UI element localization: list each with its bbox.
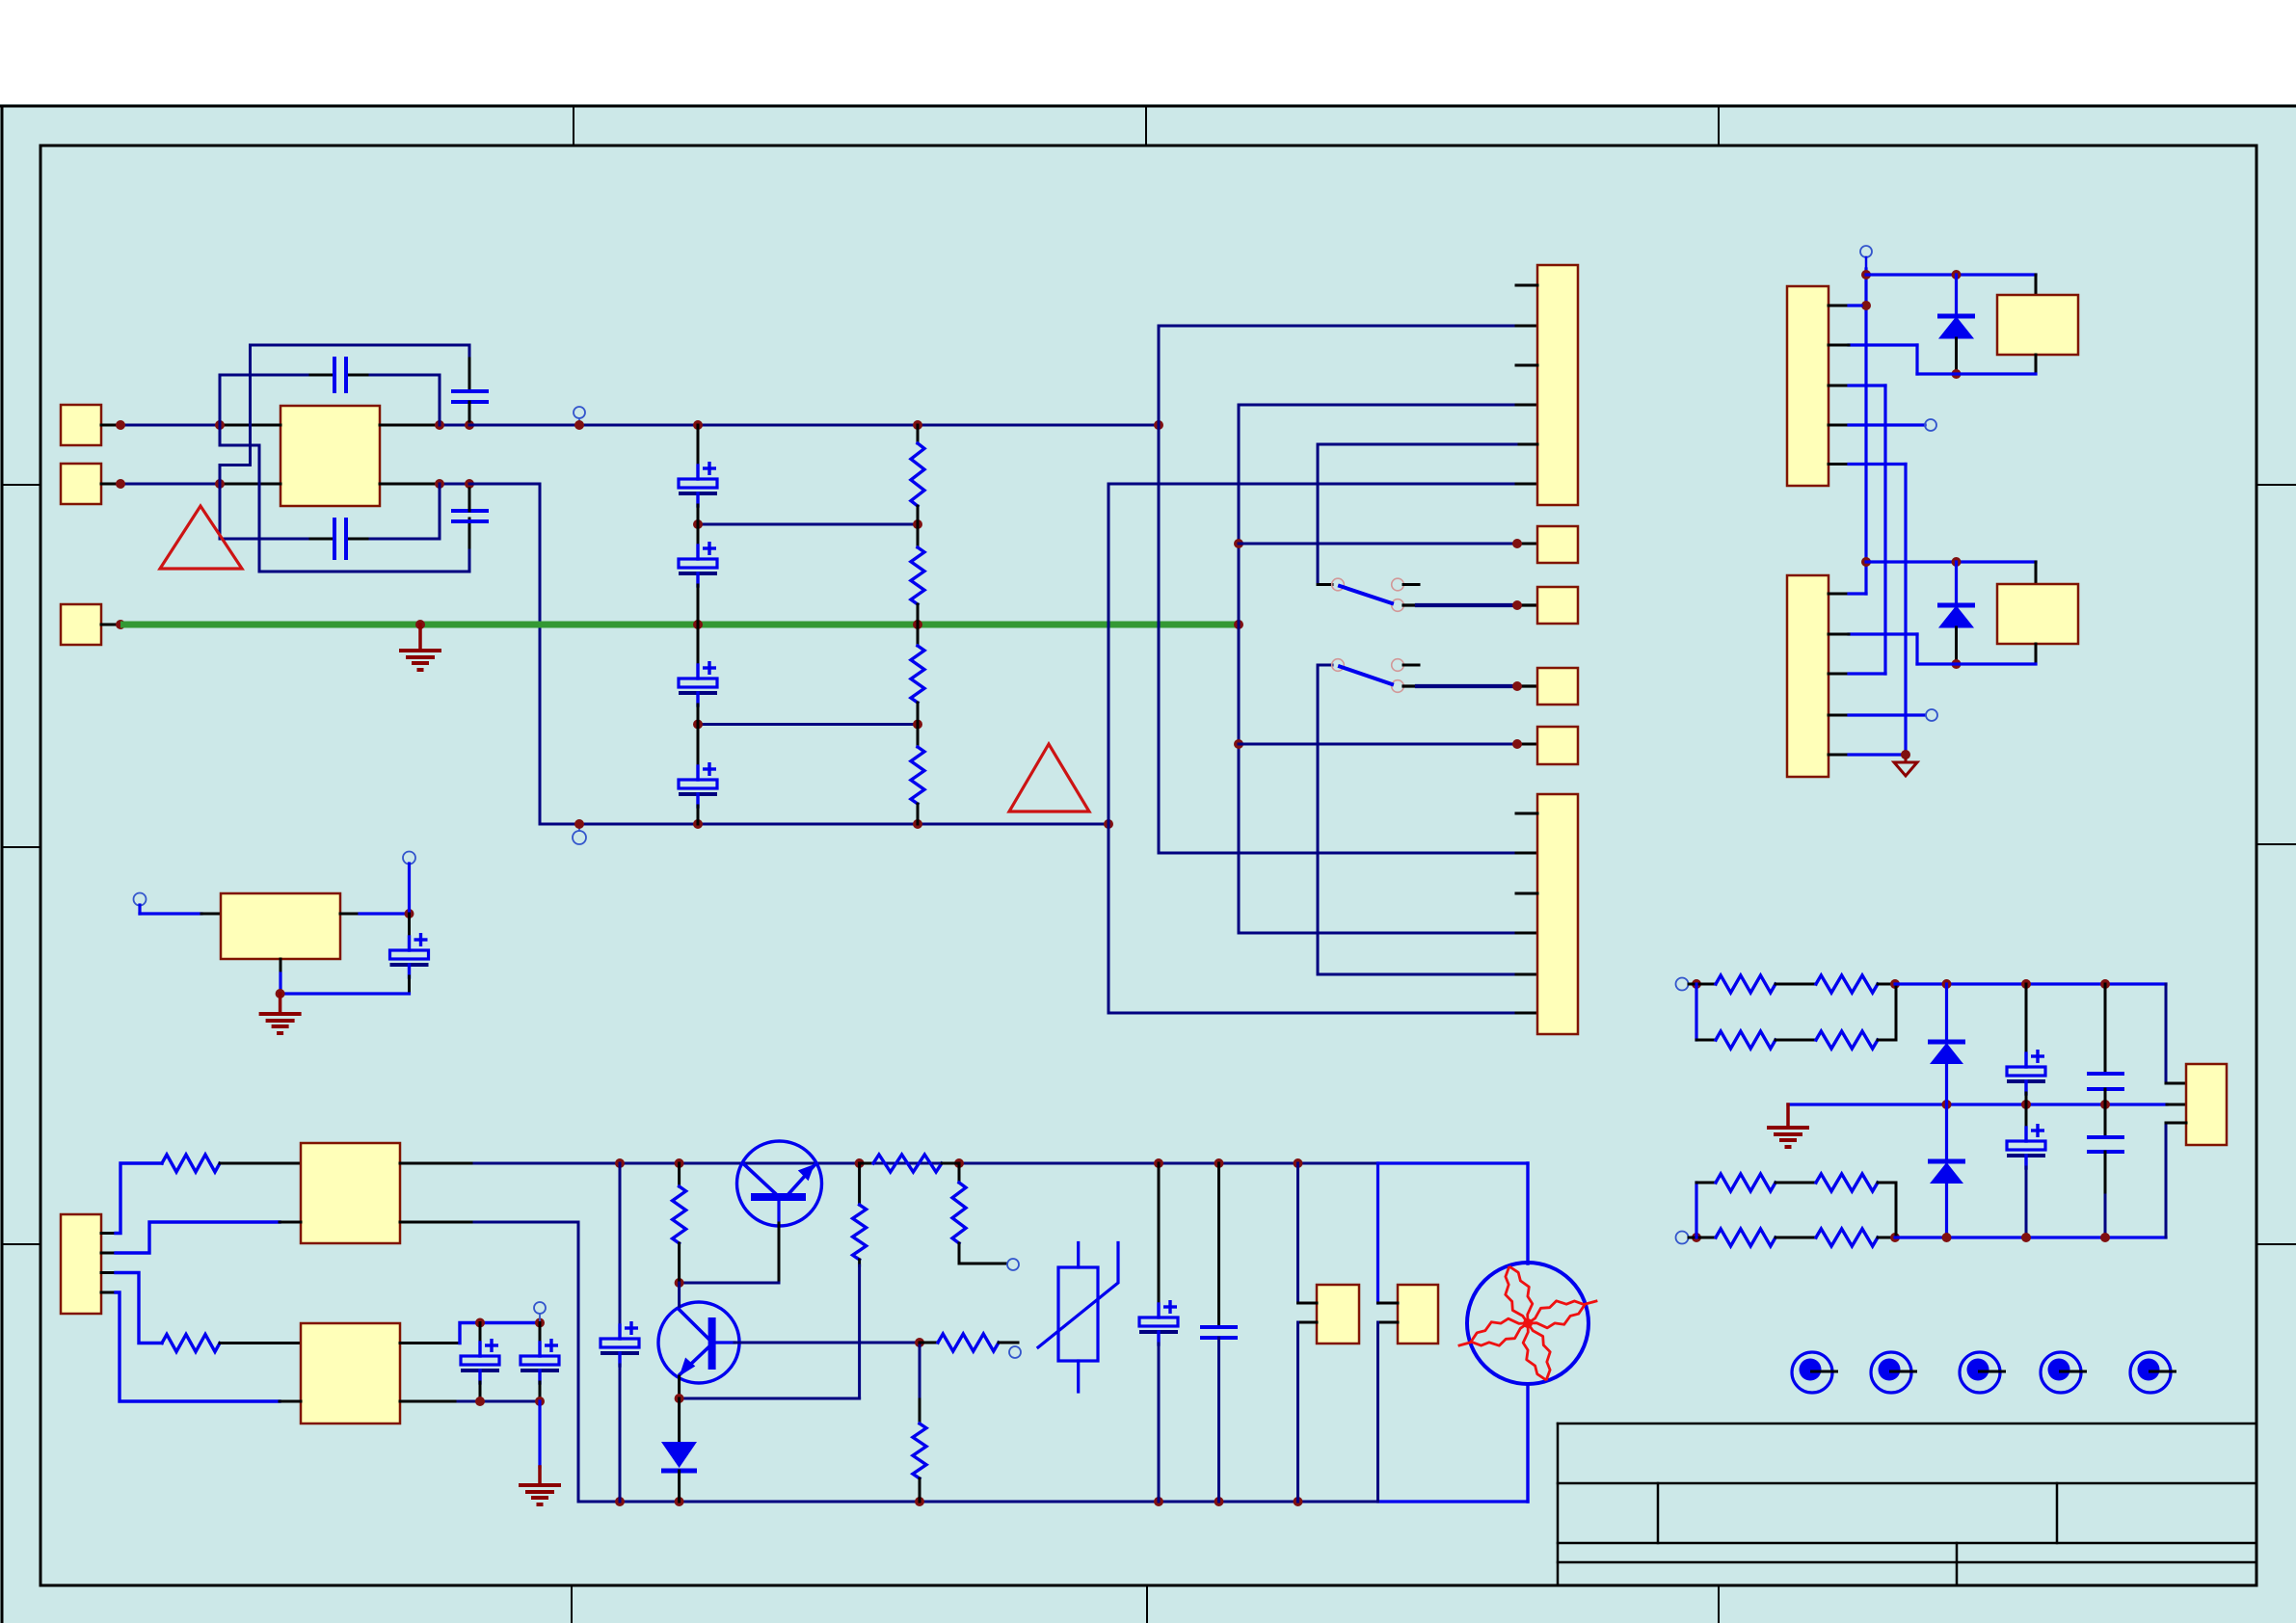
outer border <box>0 105 2296 108</box>
wire VR out up <box>408 864 411 914</box>
wire U3 out top <box>400 1342 460 1344</box>
junction dot <box>116 420 125 430</box>
capacitor C15 <box>2025 984 2028 1054</box>
junction dot <box>913 720 922 730</box>
junction dot <box>475 1397 485 1406</box>
capacitor C1 <box>333 357 336 393</box>
capacitor C10 <box>539 1323 542 1344</box>
wire net L <box>469 424 1159 427</box>
zone dividers <box>573 106 574 146</box>
junction dot <box>1512 539 1522 548</box>
wire VR gnd <box>280 959 282 973</box>
connector J5 <box>61 1214 101 1314</box>
switch SW2 <box>1332 659 1345 672</box>
junction dot <box>435 420 444 430</box>
wire Q2 collector <box>678 1283 681 1306</box>
connector P8 <box>1537 727 1578 764</box>
optocoupler U3 <box>301 1323 400 1423</box>
junction dot <box>915 1338 924 1347</box>
capacitor C4 <box>451 509 489 513</box>
wire J2 riser to SW2 <box>1318 665 1332 974</box>
junction dot <box>693 620 703 629</box>
wire U3 out bottom <box>400 1400 458 1403</box>
wire K3 top <box>1296 1163 1299 1303</box>
junction dot <box>435 479 444 489</box>
junction dot <box>915 1497 924 1506</box>
no-ERC marker <box>573 831 586 844</box>
wire node to U1 pin1 <box>220 424 280 427</box>
J5 pin4 wire <box>101 1291 116 1294</box>
junction dot <box>675 1394 684 1403</box>
junction dot <box>1154 1497 1163 1506</box>
capacitor C14 <box>408 914 411 938</box>
capacitor C9 <box>479 1323 482 1344</box>
no-ERC marker <box>1676 978 1689 991</box>
junction dot <box>465 479 474 489</box>
wire net N drop <box>1108 824 1516 1013</box>
wire emitter tie <box>858 1265 861 1398</box>
capacitor C7 <box>697 625 700 666</box>
wire P3 stub <box>101 624 120 626</box>
capacitor C11 <box>619 1163 622 1326</box>
connector P5 <box>1537 526 1578 563</box>
wire K4 bottom <box>1378 1321 1399 1324</box>
junction dot <box>1104 819 1113 829</box>
junction dot <box>675 1497 684 1506</box>
junction dot <box>116 620 125 629</box>
wire bus net X <box>1864 269 1867 594</box>
resistor R2 <box>917 524 920 547</box>
connector P3 earth <box>61 604 101 645</box>
connector P1 <box>61 405 101 445</box>
junction dot <box>1215 1158 1224 1168</box>
wire row C to SW1 <box>1317 444 1320 585</box>
junction dot <box>913 519 922 529</box>
resistor R11 <box>958 1163 961 1183</box>
junction dot <box>693 519 703 529</box>
junction dot <box>215 479 225 489</box>
junction dot <box>913 819 922 829</box>
J2 pin stubs <box>1516 812 1537 815</box>
capacitor C16 <box>2025 1104 2028 1129</box>
wire net PE riser <box>1239 405 1516 625</box>
resistor R1 <box>917 425 920 443</box>
connector J4 <box>1787 575 1829 777</box>
ground GND4 <box>1786 1104 1790 1128</box>
capacitor C18 <box>2104 1104 2107 1137</box>
junction dot <box>574 819 584 829</box>
warning triangle <box>1009 744 1089 811</box>
capacitor C17 <box>2104 984 2107 1074</box>
connector J1 <box>1537 265 1578 505</box>
wire outer loop bottom <box>220 425 469 572</box>
junction dot <box>1512 681 1522 691</box>
no-ERC marker <box>1009 1346 1021 1358</box>
junction dot <box>1952 270 1962 279</box>
thermistor RT1 <box>1058 1267 1098 1361</box>
junction dot <box>1901 750 1910 759</box>
capacitor C12 <box>1158 1163 1161 1305</box>
diode D3 <box>678 1398 681 1442</box>
junction dot <box>415 620 425 629</box>
junction dot <box>954 1158 964 1168</box>
wire J3 pin3 <box>1829 385 1849 387</box>
wire net L drop <box>1159 425 1516 853</box>
wire tier 4 <box>698 723 918 726</box>
junction dot <box>1692 979 1701 989</box>
wire K1 bottom <box>2035 355 2038 374</box>
junction dot <box>1861 301 1871 310</box>
junction dot <box>1952 369 1962 379</box>
wire P2 to node <box>101 483 120 486</box>
capacitor C8 <box>697 725 700 768</box>
connector P2 <box>61 464 101 504</box>
junction dot <box>913 420 922 430</box>
no-ERC marker <box>1007 1259 1019 1270</box>
junction dot <box>1890 979 1900 989</box>
wire SW1 to P6 <box>1403 603 1417 606</box>
wire U1 out top <box>380 424 440 427</box>
wire J4 pin3 <box>1829 673 1849 676</box>
junction dot <box>2021 1233 2031 1242</box>
junction dot <box>1942 979 1952 989</box>
no-ERC marker <box>1925 419 1936 431</box>
junction dot <box>1942 1100 1952 1109</box>
wire main top rail <box>620 1162 1298 1165</box>
resistor R10 <box>920 1342 938 1344</box>
J1 pin stubs <box>1516 284 1537 287</box>
wire J4 pin5 <box>1829 754 1849 757</box>
wire J3 pin4 <box>1829 424 1849 427</box>
junction dot <box>116 479 125 489</box>
wire R13 branch <box>1695 984 1697 1040</box>
junction dot <box>535 1318 545 1328</box>
junction dot <box>465 420 474 430</box>
wire X to K1 top <box>1866 273 2036 276</box>
wire PE to P5 <box>1239 543 1517 545</box>
junction dot <box>1861 270 1871 279</box>
resistor R13A <box>1696 1039 1716 1042</box>
optocoupler U2 <box>301 1143 400 1243</box>
wire K4 top <box>1376 1163 1379 1303</box>
diode D5 <box>1945 1104 1948 1161</box>
wire J4 pin4 <box>1829 714 1849 717</box>
wire net N riser <box>1108 484 1516 824</box>
connector P7 <box>1537 668 1578 705</box>
wire J4 pin1 <box>1829 593 1849 596</box>
fan blades <box>1471 1266 1585 1380</box>
wire net N <box>469 484 1108 824</box>
resistor R14B <box>1775 1237 1816 1239</box>
connector J3 <box>1787 286 1829 486</box>
wire U2 out bottom <box>400 1221 474 1224</box>
no-ERC marker <box>574 407 585 418</box>
J5 pin2 wire <box>101 1252 116 1255</box>
junction dot <box>215 420 225 430</box>
resistor R15A <box>1696 1182 1716 1184</box>
junction dot <box>2100 979 2110 989</box>
wire PE bus green <box>120 622 1239 628</box>
resistor R7 <box>860 1162 873 1165</box>
no-ERC marker <box>1860 246 1872 257</box>
regulator VR1 <box>221 893 340 959</box>
no-ERC marker <box>1926 709 1937 721</box>
wire net L riser <box>1159 326 1516 425</box>
wire tier 2 <box>698 523 918 526</box>
junction dot <box>1861 557 1871 567</box>
resistor R14A <box>1689 1237 1716 1239</box>
resistor R13B <box>1775 1039 1816 1042</box>
junction dot <box>1512 739 1522 749</box>
filter IC U1 <box>280 406 380 506</box>
junction dot <box>1952 659 1962 669</box>
resistor R6 <box>162 1335 220 1352</box>
junction dot <box>913 620 922 629</box>
transistor Q2 <box>658 1302 739 1383</box>
resistor R3 <box>917 625 920 646</box>
test point TP4 <box>2041 1352 2081 1393</box>
resistor R12B <box>1775 983 1816 986</box>
junction dot <box>1952 557 1962 567</box>
junction dot <box>405 909 414 918</box>
wire VR in <box>138 905 141 914</box>
junction dot <box>675 1278 684 1288</box>
relay K1 <box>1997 295 2078 355</box>
no-ERC marker <box>134 893 147 906</box>
junction dot <box>2100 1233 2110 1242</box>
wire K3 bottom <box>1298 1321 1318 1324</box>
wire SW2 to P7 <box>1403 684 1417 687</box>
resistor R8 <box>678 1163 681 1186</box>
test point TP3 <box>1960 1352 2000 1393</box>
ground GND2 <box>538 1401 541 1467</box>
connector J6 <box>2186 1064 2227 1145</box>
fan M1 <box>1526 1163 1529 1264</box>
wire mid rail <box>1788 1103 2167 1105</box>
wire P1 to node <box>101 424 120 427</box>
wire K2 bottom <box>2035 644 2038 664</box>
junction dot <box>615 1158 625 1168</box>
wire minus rail <box>1895 1236 2166 1238</box>
connector J2 <box>1537 794 1578 1034</box>
junction dot <box>1942 1233 1952 1242</box>
junction dot <box>2100 1100 2110 1109</box>
wire U2 out top <box>400 1162 474 1165</box>
relay K2 <box>1997 584 2078 644</box>
no-ERC marker <box>534 1302 546 1314</box>
relay K4 <box>1398 1285 1438 1344</box>
connector P6 <box>1537 587 1578 624</box>
junction dot <box>1215 1497 1224 1506</box>
junction dot <box>693 420 703 430</box>
junction dot <box>1512 600 1522 610</box>
junction dot <box>2021 1100 2031 1109</box>
wire node to U1 pin2 <box>220 483 280 486</box>
capacitor C3 <box>333 518 336 560</box>
wire J3 pin5 <box>1829 463 1849 466</box>
capacitor C13 <box>1217 1163 1220 1327</box>
no-ERC marker <box>403 852 415 865</box>
no-ERC marker <box>1676 1232 1689 1244</box>
diode D4 <box>1945 984 1948 1042</box>
diode D2 <box>1955 562 1958 605</box>
capacitor C5 <box>697 425 700 466</box>
junction dot <box>615 1497 625 1506</box>
resistor R4 <box>917 725 920 748</box>
wire Q1 base <box>778 1223 781 1283</box>
wire VR out <box>340 913 360 916</box>
resistor R5 <box>162 1155 220 1172</box>
wire bottom rail <box>578 1501 1378 1503</box>
junction dot <box>1234 620 1243 629</box>
junction dot <box>535 1397 545 1406</box>
resistor R12 <box>858 1163 861 1205</box>
junction dot <box>693 819 703 829</box>
resistor R15B <box>1775 1182 1816 1184</box>
junction dot <box>1294 1158 1303 1168</box>
wire R15 branch <box>1695 1183 1697 1237</box>
test point TP2 <box>1871 1352 1911 1393</box>
wire PE to P8 <box>1239 743 1517 746</box>
ground GND3 <box>279 994 282 1014</box>
wire outer loop top <box>220 345 469 484</box>
junction dot <box>475 1318 485 1328</box>
wire inner loop top <box>220 375 310 425</box>
junction dot <box>855 1158 865 1168</box>
wire net PE drop <box>1239 625 1516 933</box>
power port arrow <box>1905 759 1908 761</box>
junction dot <box>693 720 703 730</box>
junction dot <box>1234 739 1243 749</box>
switch SW1 <box>1332 578 1345 591</box>
earth ground symbol <box>418 625 422 651</box>
wire plus rail <box>1895 982 2166 985</box>
junction dot <box>1294 1497 1303 1506</box>
resistor R9 <box>919 1343 921 1399</box>
relay K3 <box>1317 1285 1359 1344</box>
transistor Q1 <box>737 1141 822 1226</box>
capacitor C6 <box>697 524 700 546</box>
test point TP5 <box>2130 1352 2171 1393</box>
wire U1 out bottom <box>380 483 440 486</box>
junction dot <box>574 420 584 430</box>
junction dot <box>1692 1233 1701 1242</box>
wire Q2 emitter <box>678 1376 681 1398</box>
junction dot <box>2021 979 2031 989</box>
J5 pin3 wire <box>101 1271 116 1274</box>
J5 pin1 wire <box>101 1232 116 1235</box>
capacitor C2 <box>451 389 489 393</box>
junction dot <box>276 989 285 998</box>
wire inner loop bottom <box>220 484 310 539</box>
resistor R12A <box>1689 983 1716 986</box>
junction dot <box>1890 1233 1900 1242</box>
junction dot <box>675 1158 684 1168</box>
title block <box>1558 1423 2256 1425</box>
warning triangle <box>160 506 242 569</box>
wire X to K2 top <box>1866 560 2036 563</box>
diode D1 <box>1955 275 1958 316</box>
test point TP1 <box>1792 1352 1832 1393</box>
wire J3 pin1 <box>1829 305 1849 307</box>
junction dot <box>1234 539 1243 548</box>
wire Q2 base net <box>734 1342 920 1344</box>
junction dot <box>1154 420 1163 430</box>
junction dot <box>1154 1158 1163 1168</box>
